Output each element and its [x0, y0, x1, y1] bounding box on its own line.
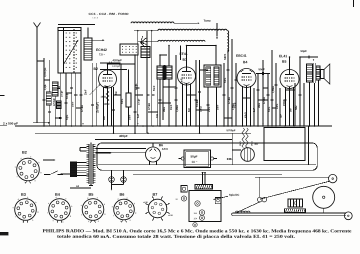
wire x263 — [262, 60, 264, 126]
drum to rod cord — [323, 208, 325, 213]
svg-text:Tono: Tono — [203, 19, 210, 23]
IF unit adjuster b — [199, 210, 204, 215]
svg-text:5nF: 5nF — [291, 107, 293, 112]
svg-text:h: h — [134, 203, 135, 205]
wire x66 — [65, 73, 67, 126]
IF side eyelet lower — [181, 196, 186, 201]
svg-text:f: f — [17, 176, 18, 178]
svg-text:4200pF: 4200pF — [112, 58, 122, 62]
scale lamp housing — [288, 199, 303, 207]
svg-text:a: a — [35, 180, 37, 182]
svg-text:1MΩ: 1MΩ — [259, 103, 261, 108]
wire lamp bottom — [112, 184, 124, 186]
svg-text:15kΩ: 15kΩ — [200, 106, 202, 112]
wire x258 — [257, 74, 259, 127]
tube socket B6 — [114, 199, 135, 220]
svg-text:d: d — [18, 199, 19, 201]
svg-text:470kΩ: 470kΩ — [81, 105, 84, 112]
svg-text:1MΩ: 1MΩ — [164, 107, 166, 112]
resistor R2 boxed — [126, 93, 131, 107]
arrow pickup to sockets — [43, 159, 54, 161]
svg-text:12kΩ: 12kΩ — [103, 103, 109, 106]
dial window frame — [264, 128, 305, 161]
IF transformer T1 winding a (hatched) — [157, 66, 163, 79]
IF unit lower eyelet — [193, 223, 197, 227]
wire x148 — [146, 31, 148, 134]
svg-text:k: k — [53, 220, 54, 222]
chassis inner line y164.8 — [98, 164, 316, 166]
svg-text:d: d — [20, 158, 21, 160]
svg-text:5kΩ: 5kΩ — [296, 105, 298, 110]
svg-text:Spia DC: Spia DC — [229, 193, 239, 197]
capacitor C5 4200pF — [118, 62, 120, 65]
tube socket B4 — [49, 199, 71, 221]
wire x55.5 lower — [54, 96, 56, 126]
wire x276 — [275, 63, 277, 126]
wire x196 — [195, 60, 197, 126]
junction dots on buses and nodes — [43, 125, 45, 127]
coil L4 small (hatched) — [57, 101, 62, 109]
output transformer T3 secondary (hatched) — [316, 66, 320, 80]
svg-text:5700pF: 5700pF — [226, 128, 235, 132]
svg-text:B6: B6 — [159, 143, 163, 147]
top-right page tick mark — [353, 0, 355, 7]
tube socket B2 — [17, 158, 40, 181]
wire y63 osc — [100, 62, 120, 64]
wires output stage down — [303, 83, 305, 126]
svg-text:B5: B5 — [282, 60, 286, 64]
capacitor C2 on wire x44 — [42, 98, 45, 100]
svg-text:g: g — [135, 212, 136, 214]
tube socket B5 — [82, 199, 104, 221]
svg-text:e: e — [65, 198, 67, 200]
resistor R1 1MΩ zigzag — [106, 91, 109, 101]
svg-text:c u c o: c u c o — [92, 17, 98, 19]
wire x295 — [294, 83, 296, 126]
RF coil L3 (hatched) — [52, 82, 58, 96]
svg-text:50nF: 50nF — [258, 67, 265, 71]
wire x121 — [120, 64, 122, 126]
svg-text:B6: B6 — [119, 193, 124, 197]
scalloped dial-cord line S3 — [134, 30, 158, 32]
svg-text:1200pF: 1200pF — [112, 65, 121, 68]
left edge tick y95 — [0, 95, 5, 97]
svg-text:d: d — [56, 197, 57, 199]
pointer rod lower line — [233, 214, 346, 216]
oscillator coil L5 (hatched) — [141, 47, 150, 58]
svg-text:A0: A0 — [76, 185, 80, 188]
svg-text:10nF: 10nF — [277, 103, 279, 109]
IF unit adjuster c — [200, 215, 205, 220]
svg-text:50pF: 50pF — [67, 114, 69, 120]
wire x254 — [253, 88, 255, 126]
output transformer T3 core — [313, 63, 315, 83]
mains input arrow — [61, 173, 70, 175]
wire x232 — [231, 39, 233, 126]
pilot lamp LP1 — [111, 170, 113, 189]
power transformer T4 primary winding — [88, 144, 90, 184]
svg-text:1nF: 1nF — [138, 113, 140, 118]
wire x224 — [223, 63, 225, 126]
svg-text:h: h — [35, 202, 36, 204]
dial cord diagonal — [260, 181, 329, 199]
svg-text:e: e — [27, 197, 29, 199]
RF coil L2 (hatched) — [46, 92, 51, 105]
resistor R20 1MΩ vertical — [242, 128, 245, 148]
svg-text:156: 156 — [193, 213, 197, 215]
tube V4 EL41 — [280, 70, 299, 89]
svg-text:2 x 500 pF: 2 x 500 pF — [3, 122, 18, 126]
left edge mark bottom — [0, 232, 8, 235]
gang trimmer arrow — [90, 85, 100, 95]
wire x113.5 — [113, 87, 115, 133]
svg-text:1A ~: 1A ~ — [191, 160, 197, 164]
wire x268 — [267, 74, 269, 127]
tube V2 EF41 — [178, 67, 196, 85]
svg-text:154: 154 — [193, 218, 197, 220]
dial idler pulley — [329, 174, 337, 182]
transformer bottom lead A0 — [89, 185, 93, 187]
main HT bus wire y126 — [15, 125, 332, 127]
svg-text:50nF: 50nF — [130, 114, 132, 120]
wire x135 — [134, 55, 136, 133]
left edge tick y126 — [0, 125, 7, 127]
IF transformer T2 winding b (hatched) — [214, 67, 219, 85]
svg-text:f: f — [113, 215, 114, 217]
bus wire y133 — [35, 132, 251, 134]
wire S1 extension with arrow to Tono — [174, 22, 198, 24]
wire x163 lower with cap — [162, 79, 164, 120]
svg-text:totale anodica 60 mA. Consumo: totale anodica 60 mA. Consumo totale 28 … — [57, 234, 295, 239]
svg-text:B2: B2 — [93, 67, 98, 71]
scale lamp bracket hatched — [285, 209, 306, 213]
svg-text:100pF: 100pF — [139, 98, 141, 105]
IF transformer T1 core — [163, 65, 165, 80]
svg-text:50nF: 50nF — [72, 101, 74, 107]
svg-text:470kΩ: 470kΩ — [148, 103, 151, 110]
wire x75.8 — [75, 73, 77, 126]
svg-text:h: h — [71, 206, 72, 208]
dial cord to pointer rod — [237, 202, 260, 213]
wire y41.6 left of S4 — [138, 41, 158, 43]
svg-text:B3: B3 — [21, 193, 26, 197]
tube socket B3 — [15, 199, 37, 221]
wire plate V1 to IF1 — [108, 63, 136, 65]
chassis outline rounded — [97, 143, 317, 170]
svg-text:1MΩ: 1MΩ — [100, 96, 105, 99]
wire x137.8 — [137, 31, 139, 126]
diode plates V3 — [241, 70, 244, 72]
svg-text:a: a — [62, 221, 64, 223]
band switch S1 wiper arrow — [64, 41, 78, 65]
wire x180.5 — [180, 46, 182, 61]
svg-text:8nF: 8nF — [189, 107, 191, 112]
heater feed arrow right — [96, 152, 110, 154]
tuning gang section wires — [91, 63, 93, 126]
IF trimmer base plate hatched — [195, 185, 213, 190]
svg-text:s: s — [13, 207, 14, 209]
wire antenna to gang with arrow — [33, 122, 49, 124]
wire y67.5 osc — [100, 69, 127, 71]
svg-text:a: a — [130, 220, 132, 222]
svg-text:d: d — [117, 199, 118, 201]
pointer rod left end cap — [232, 213, 233, 215]
svg-text:s: s — [15, 167, 16, 169]
tube V1 ECH42 — [99, 70, 117, 88]
wire x81 — [80, 73, 82, 126]
svg-text:0,1µF: 0,1µF — [45, 83, 47, 90]
mains tap wires — [71, 162, 87, 164]
svg-text:1MΩ: 1MΩ — [240, 141, 242, 146]
wire x300 — [299, 57, 301, 126]
capacitor C6 1200pF — [109, 61, 111, 64]
svg-text:g: g — [40, 172, 41, 174]
svg-text:300pF: 300pF — [61, 90, 63, 97]
wire plate V4 up to output transformer — [289, 57, 291, 63]
tuning shaft vertical — [259, 177, 261, 197]
oscillator wiper star — [141, 36, 143, 43]
svg-text:B5: B5 — [88, 193, 93, 197]
svg-text:470kΩ: 470kΩ — [263, 97, 266, 104]
scalloped dial-cord corner vertical — [227, 31, 228, 52]
upper taps — [80, 147, 86, 149]
svg-text:20: 20 — [175, 199, 178, 201]
wire plate V2 to IF2 — [187, 45, 217, 47]
svg-text:0,047µF: 0,047µF — [43, 67, 47, 77]
svg-text:f: f — [15, 216, 16, 218]
svg-text:g: g — [37, 211, 38, 213]
svg-text:50nF: 50nF — [225, 77, 227, 83]
svg-text:30nF: 30nF — [171, 104, 173, 110]
wire x176 — [175, 55, 177, 126]
svg-text:8nF: 8nF — [104, 115, 106, 120]
chassis lower line y174.6 — [133, 174, 282, 176]
bus wire y139.5 — [95, 139, 232, 141]
svg-text:h: h — [104, 204, 105, 206]
svg-text:EBC41: EBC41 — [236, 54, 247, 58]
svg-text:g: g — [104, 214, 105, 216]
svg-text:1MΩ: 1MΩ — [252, 141, 254, 146]
magic eye tube V6 EM4 — [241, 148, 255, 162]
power transformer T4 core — [89, 143, 91, 186]
terminal right of 50uF — [210, 157, 213, 160]
svg-text:EL41: EL41 — [279, 54, 287, 58]
wire x49.6 with coil — [49, 60, 51, 92]
svg-text:f: f — [47, 213, 48, 215]
rectifier tube V5 AZ41 — [146, 147, 161, 162]
svg-text:B7: B7 — [152, 193, 157, 197]
magic eye socket B7 with radial leads — [148, 199, 167, 218]
svg-text:SINT.: SINT. — [223, 53, 227, 60]
svg-text:a: a — [98, 221, 100, 223]
IF transformer T1 winding b (hatched) — [166, 66, 172, 79]
svg-text:0,3MΩ: 0,3MΩ — [177, 105, 179, 112]
antenna A1 — [34, 23, 41, 28]
scalloped dial-cord line S1 top — [131, 22, 174, 23]
wires IF1 leads — [159, 55, 161, 66]
resistor R21 1MΩ vertical — [246, 128, 249, 148]
svg-text:25nF: 25nF — [86, 89, 88, 95]
IF side bracket with eyelet — [181, 186, 187, 193]
svg-text:50nF: 50nF — [269, 106, 271, 112]
scalloped dial-cord line S4 — [158, 40, 205, 41]
svg-text:e: e — [30, 156, 32, 158]
svg-text:50nF: 50nF — [154, 85, 156, 91]
oscillator switch box — [120, 44, 138, 55]
pilot lamp LP2 — [123, 170, 125, 184]
svg-text:k: k — [88, 221, 89, 223]
wire x308.5 below bus — [308, 126, 310, 165]
wire x158 lower — [157, 79, 159, 126]
svg-text:7,5 ~: 7,5 ~ — [99, 52, 105, 56]
pointer rod upper line — [233, 212, 346, 214]
svg-text:CC1 - CC2 - BM - FONO: CC1 - CC2 - BM - FONO — [88, 12, 129, 16]
svg-text:B7: B7 — [254, 142, 258, 146]
tube V3 EBC41 — [237, 69, 256, 88]
band switch S1 wafer dashed shaft — [73, 29, 75, 73]
connector stub wires — [163, 86, 176, 88]
aerial coil L1 (hatched) — [84, 38, 92, 60]
svg-text:+L32: +L32 — [168, 215, 174, 217]
svg-text:PHILIPS RADIO — Mod. BI 510 A.: PHILIPS RADIO — Mod. BI 510 A. Onde cort… — [42, 228, 351, 233]
down arrowheads onto bus — [137, 123, 138, 125]
wire antenna to input network — [37, 60, 44, 62]
IF trimmer screw — [202, 173, 204, 185]
pointer cord spring — [236, 211, 250, 212]
svg-text:50µF: 50µF — [190, 155, 197, 159]
svg-text:s: s — [112, 206, 113, 208]
wire x280 — [279, 88, 281, 126]
wire x153 — [151, 31, 153, 126]
wires IF2 leads down — [207, 87, 209, 126]
switch symbol left — [44, 174, 50, 176]
svg-text:ECH42: ECH42 — [96, 48, 107, 52]
left RF section vertical wire with 0.047uF label — [43, 58, 45, 126]
svg-text:k: k — [120, 221, 121, 223]
svg-text:400pF: 400pF — [119, 134, 128, 138]
dial cord upper run — [255, 176, 328, 178]
output transformer T3 primary (hatched) — [307, 64, 313, 82]
dial drive drum — [313, 186, 335, 208]
wire from box top to antenna rail — [87, 28, 89, 39]
svg-text:(2x480pF): (2x480pF) — [97, 102, 100, 113]
band switch S1 contact dots — [66, 32, 67, 33]
svg-text:f: f — [81, 215, 82, 217]
svg-text:B4: B4 — [243, 60, 247, 64]
mains tap selector block — [70, 162, 77, 177]
wire x228 — [227, 50, 229, 126]
svg-text:0,5MΩ: 0,5MΩ — [273, 86, 275, 93]
wire coil L1 to mixer grid with arrow — [92, 39, 103, 41]
svg-text:8µF: 8µF — [280, 113, 282, 118]
dial shaft bushing left — [258, 197, 263, 202]
svg-text:20nF: 20nF — [235, 102, 237, 108]
IF transformer T2 box — [204, 65, 221, 87]
svg-text:AZ41: AZ41 — [162, 148, 169, 151]
svg-text:25nF: 25nF — [209, 106, 211, 112]
svg-text:B2: B2 — [22, 151, 27, 155]
svg-text:2nF: 2nF — [157, 113, 159, 118]
band switch S1 outer box — [58, 28, 81, 74]
svg-text:50nF: 50nF — [122, 98, 124, 104]
svg-text:d: d — [87, 198, 88, 200]
pointer rod end pulley — [344, 212, 352, 220]
svg-text:+L30: +L30 — [143, 202, 149, 204]
wires AZ41 leads — [152, 143, 154, 147]
IF unit box — [189, 191, 221, 222]
svg-text:g: g — [70, 216, 71, 218]
capacitor C3 bars — [57, 86, 60, 88]
wire to magic eye — [231, 133, 233, 165]
arrow from tone control down — [216, 23, 218, 37]
svg-text:470kΩ: 470kΩ — [228, 97, 231, 104]
svg-text:s: s — [48, 203, 49, 205]
svg-text:50nF: 50nF — [218, 104, 220, 110]
svg-text:e: e — [127, 198, 129, 200]
svg-text:40kΩ: 40kΩ — [245, 112, 248, 118]
wire x199.5 — [199, 60, 201, 133]
mains filter block 50uF outer — [184, 150, 211, 168]
svg-text:s: s — [81, 205, 82, 207]
wire x71.6 — [71, 73, 73, 126]
IF unit adjuster a — [195, 201, 200, 206]
IF unit terminal box — [215, 198, 221, 204]
svg-text:a: a — [32, 220, 34, 222]
IF transformer T2 winding a (hatched) — [206, 67, 211, 85]
wire x236 — [235, 63, 237, 126]
svg-text:e: e — [97, 197, 99, 199]
svg-text:50pF: 50pF — [300, 49, 307, 53]
extra capacitor bars — [48, 110, 51, 112]
wire x272 — [271, 50, 273, 126]
svg-text:h: h — [38, 162, 39, 164]
wire x60.6 — [60, 73, 62, 101]
svg-text:1nF: 1nF — [254, 107, 256, 112]
power transformer T4 secondary winding — [92, 144, 94, 184]
loudspeaker LS1 — [321, 70, 325, 79]
svg-text:30n: 30n — [116, 90, 118, 95]
terminal left of 50uF — [181, 157, 184, 160]
mains filter block 50uF inner — [186, 152, 209, 166]
